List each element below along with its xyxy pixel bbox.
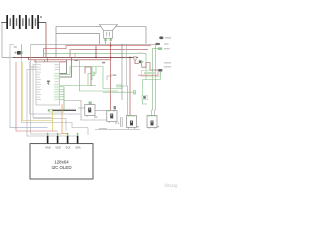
wire left x21 [22, 57, 32, 122]
wire green x146 [146, 53, 161, 79]
wire battery - down left edge [2, 23, 15, 58]
wire button1 to button2 [95, 109, 107, 111]
wire green LED down [159, 72, 161, 80]
svg-text:128x64: 128x64 [54, 160, 69, 165]
wire orange left x29 [29, 62, 31, 114]
svg-text:SCK: SCK [65, 147, 70, 150]
OLED pins GND VDD SCK SDA [47, 133, 79, 144]
IC pin labels left [37, 64, 41, 100]
wire gray x155 [154, 44, 157, 116]
wire green vertical x79 [80, 60, 119, 91]
wire green rect x92 [91, 67, 93, 80]
wire gray speaker box [56, 34, 100, 45]
wire red mid rail [44, 46, 152, 58]
IC top pin stubs [44, 60, 46, 62]
svg-text:I2C OLED: I2C OLED [51, 165, 71, 170]
wire rail C red [35, 60, 66, 62]
component Q1 [139, 60, 144, 63]
wire switch vertical [21, 44, 23, 57]
OLED display U2 [30, 144, 93, 179]
component R2 green [158, 48, 169, 50]
wire gray step btn2 up [107, 74, 112, 80]
wire green left from LED bus [143, 80, 147, 96]
wire button1 area [78, 107, 85, 109]
wire under button1 [65, 101, 107, 121]
wire gray top long [56, 27, 146, 58]
switch S1 [14, 46, 23, 54]
wire green net to button3 [60, 67, 128, 116]
label smudge green A [92, 72, 95, 76]
wire left x27 [27, 70, 78, 137]
OLED pin labels [45, 147, 81, 150]
label smudge green B [117, 85, 122, 87]
wire yellow [52, 110, 54, 131]
pushbutton S5 [147, 115, 159, 129]
IC left stub wires down [33, 65, 52, 118]
wire light blue y114 [30, 113, 80, 115]
battery plus label [40, 16, 42, 18]
pushbutton S4 [127, 115, 139, 129]
IC right green pin stubs [60, 87, 64, 100]
wire green y84 [60, 85, 96, 87]
svg-text:SDA: SDA [75, 147, 80, 150]
net label green box [142, 70, 161, 76]
wire gray rail y44.3 [31, 43, 155, 45]
wire gray x122 to button area [121, 57, 123, 100]
pushbutton S3 [107, 106, 119, 124]
wire gray y118 [33, 119, 66, 132]
speaker pins [104, 38, 111, 41]
wire yellow left [22, 62, 52, 121]
wire stub up x96 [95, 46, 97, 58]
wire IC right dark 2 [60, 57, 72, 77]
wire blue-gray left x10 [10, 44, 48, 127]
wire button2 stubs down [120, 117, 122, 127]
OLED title text [51, 160, 71, 171]
wire speaker pin2 red down [110, 42, 112, 112]
wire bottom label run [95, 129, 140, 131]
wire rail B [29, 57, 110, 59]
wire green bus down [63, 87, 65, 111]
speaker LS1 [99, 25, 117, 39]
label smudge dark C [75, 59, 78, 61]
wire red right y75 [138, 72, 158, 76]
svg-text:fritzing: fritzing [165, 183, 178, 188]
wire IC right dark 1 [60, 60, 67, 74]
IC logo glyph [47, 81, 51, 86]
wire red to button3 [129, 57, 131, 115]
component R3 small vertical [134, 53, 143, 60]
component C1 top right [159, 36, 171, 39]
label smudge dark D [102, 62, 105, 64]
battery BT1 [1, 15, 46, 29]
wire dark red right step [135, 60, 139, 64]
component inline R1 [156, 43, 169, 45]
IC U1 ATmega [36, 62, 60, 105]
wire orange [62, 104, 68, 135]
wire gray x126 [126, 44, 128, 86]
wire green x152 [152, 49, 159, 116]
wire stub up x122 [121, 44, 123, 58]
wire dark red y49.6 [70, 50, 148, 58]
wire battery + down [45, 23, 47, 58]
wire dark bundle [52, 109, 76, 111]
wire green y53.3 [44, 52, 146, 54]
wire left gray x30 [31, 44, 63, 134]
wire speaker pin1 to gray rail [104, 41, 106, 44]
wire green y92 [103, 91, 134, 93]
pushbutton S2 [85, 102, 98, 119]
wire red left x16 [16, 62, 58, 131]
IC pin labels right with green highlights [54, 64, 59, 100]
wire rail A dark red [13, 56, 138, 58]
wire dark red step [85, 67, 91, 86]
wire green stub x75 [74, 53, 76, 57]
component LED1 [158, 62, 171, 71]
svg-text:GND: GND [45, 147, 51, 150]
component D2 green [143, 100, 148, 104]
wire gray y122 [31, 123, 88, 136]
svg-text:VDD: VDD [55, 147, 60, 150]
